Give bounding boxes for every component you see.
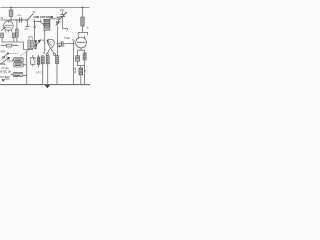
tuning arrow [36,39,42,45]
node junction top-left [10,7,12,9]
wire TR2 top bar [78,32,88,35]
label block row2 [7,59,15,63]
capacitor C2 right [12,33,15,38]
wire winding bottom [24,49,36,50]
switch S1 [27,14,34,21]
capacitor C3 coupling [14,18,27,23]
wire speaker drop [26,50,28,85]
label block row5 [0,70,11,74]
label 10k [28,48,31,50]
wire cathode return [2,38,24,42]
label near TR1 [62,45,64,48]
wire TR2 emitter network [78,48,85,56]
ground symbol [45,85,50,88]
capacitor C15 [14,63,27,67]
winding b top link [29,37,32,41]
label C11 [75,68,87,74]
capacitor C13 open box [31,55,35,66]
wire top supply rail [1,7,90,9]
capacitor C11 electrolytic [79,68,83,85]
wire emitter bus [77,66,85,85]
svg-text:B-DC 2k: B-DC 2k [0,70,11,74]
label 6TO [36,71,42,74]
wire TR1 emitter lead [46,49,49,55]
wire to mixer [40,22,44,53]
label block row4 [1,66,9,70]
tube V1 envelope [4,21,14,31]
svg-text:VOL: VOL [0,62,6,66]
label VR1 [0,50,5,53]
wire VC1 bottom [63,29,68,33]
label S1 [33,12,37,14]
value label under caps [13,45,18,47]
coil L2 striped [37,55,39,67]
gang dashed link [8,49,30,55]
tube arrow [1,27,6,31]
resistor R4 [46,56,49,85]
capacitor C1 left [1,33,4,38]
transistor TR1 [47,39,54,49]
transformer T3 winding c [34,40,36,48]
label right edge [86,27,89,30]
capacitor C10 [73,56,79,66]
potentiometer arrow [2,53,9,59]
label T1 [51,17,54,19]
transformer T3 winding b [31,41,33,49]
label GND ANT BAND [34,15,54,19]
wire antenna bus [33,21,41,22]
svg-text:VR1: VR1 [0,50,5,53]
svg-text:6-TO: 6-TO [36,71,42,74]
trimmer capacitor TC1 [50,17,61,26]
svg-text:470p: 470p [17,15,23,17]
wire bottom ground rail [0,84,90,86]
resistor R2 [81,8,84,33]
capacitor C8 [41,56,44,85]
label bottom-left [0,75,10,79]
fuse F1 [6,44,12,47]
label osc [64,37,70,40]
ground terminal stub [33,22,36,29]
svg-text:9V BAT: 9V BAT [0,75,10,79]
resistor R5 [56,26,59,84]
wire long right drop [73,41,74,84]
variable capacitor VC1 [59,9,67,29]
switch S2 [10,72,26,76]
resistor R6 [83,53,86,66]
resistor R1 [9,8,13,21]
terminal leads [35,19,41,22]
capacitor C9 inline [58,41,74,47]
transistor TR2 [76,35,87,48]
label TR2 [72,40,75,42]
wire output line [1,45,19,47]
wire tuned line [34,22,36,41]
coil L1 [16,20,19,42]
transformer T1 windings [44,19,50,31]
label block row3 [0,62,6,66]
transformer T3 winding a [28,41,30,49]
wire grid bus [1,19,28,21]
capacitor C4 stub [24,20,29,31]
svg-text:TR: TR [72,40,75,42]
capacitor C14 [12,58,23,62]
wire return drop [23,42,25,50]
label grid [0,17,4,20]
label block row1 [2,55,10,59]
wire TR1 collector lead [51,49,56,55]
label C3 value [17,15,23,17]
wire T3 to C8 [42,39,45,41]
svg-text:P RE: P RE [64,37,70,40]
tube V1 pins [6,30,12,33]
volume arrow [0,57,10,65]
node junction top-right [82,7,84,9]
speaker mark [1,79,9,82]
node grid junction [10,19,28,21]
